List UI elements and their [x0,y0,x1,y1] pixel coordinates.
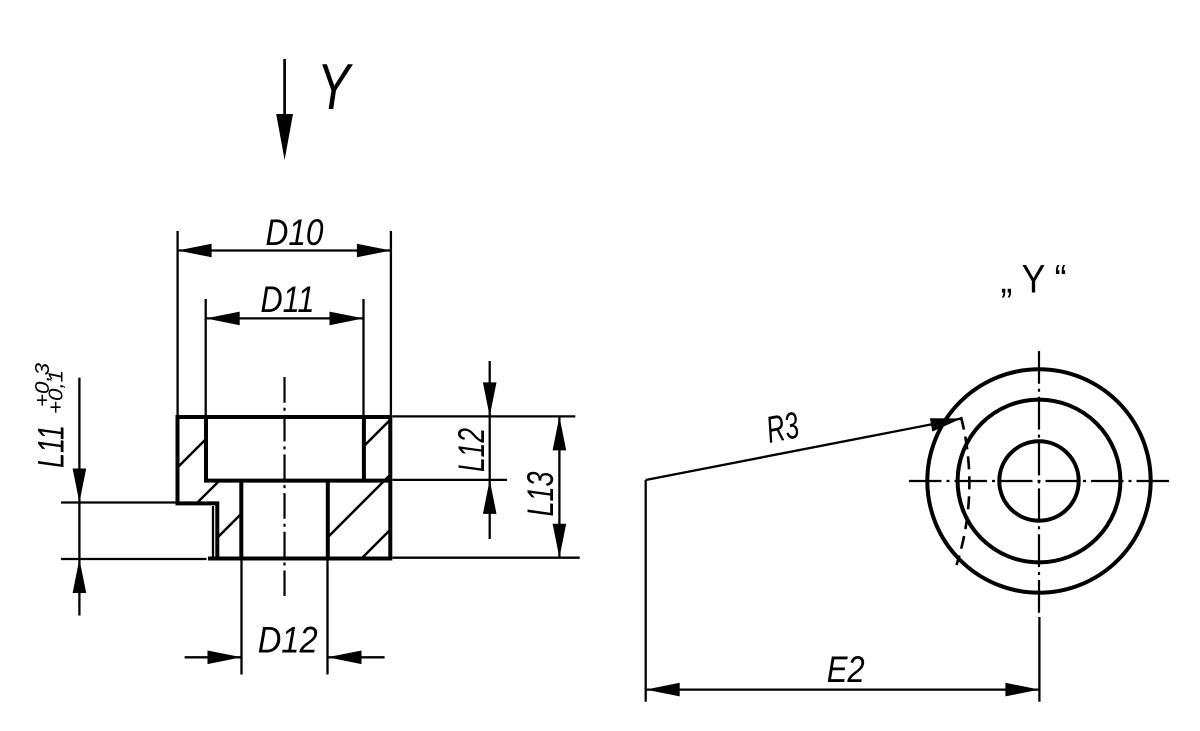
svg-text:+0,1: +0,1 [46,370,68,414]
svg-text:D11: D11 [261,278,315,320]
svg-text:D12: D12 [258,619,318,661]
svg-text:D10: D10 [266,211,324,253]
svg-text:L13: L13 [519,471,561,516]
svg-text:E2: E2 [827,648,865,690]
svg-text:L11: L11 [30,425,72,468]
svg-text:„ Y “: „ Y “ [1001,258,1067,302]
svg-text:Y: Y [317,50,354,123]
svg-text:L12: L12 [450,428,492,472]
